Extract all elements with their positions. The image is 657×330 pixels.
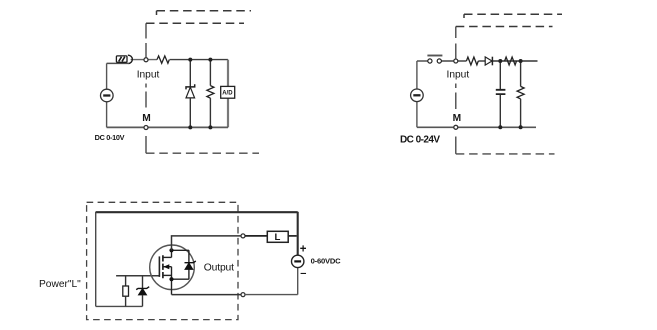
svg-text:0-60VDC: 0-60VDC	[311, 256, 342, 265]
svg-text:+: +	[300, 244, 307, 256]
svg-text:A/D: A/D	[222, 90, 233, 96]
svg-text:M: M	[142, 113, 151, 124]
svg-text:–: –	[300, 267, 306, 279]
svg-text:Power"L": Power"L"	[39, 279, 81, 290]
svg-text:M: M	[453, 113, 462, 124]
svg-text:Input: Input	[447, 69, 470, 80]
svg-text:Output: Output	[204, 263, 234, 274]
svg-text:Input: Input	[137, 70, 160, 81]
svg-text:DC 0-24V: DC 0-24V	[400, 135, 440, 146]
svg-text:L: L	[275, 232, 281, 243]
svg-text:DC 0-10V: DC 0-10V	[95, 133, 125, 142]
